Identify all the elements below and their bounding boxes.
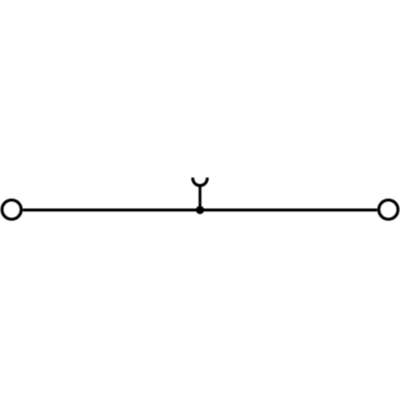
wire tap branch bbox=[199, 185, 202, 211]
terminal clamp right bbox=[379, 200, 398, 219]
terminal clamp left bbox=[2, 200, 21, 219]
node junction bbox=[196, 206, 204, 214]
wire bbox=[23, 209, 378, 212]
test tap fork bbox=[193, 178, 207, 186]
